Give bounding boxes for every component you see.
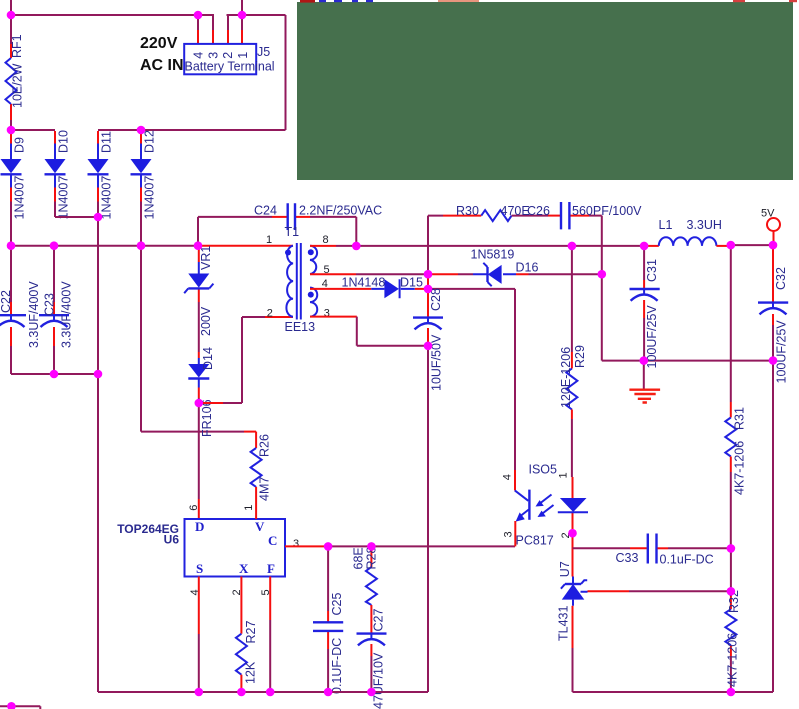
- wire J5 pin red stubs: [198, 30, 242, 44]
- wire U6 pin C line y=546.4: [285, 545, 328, 547]
- svg-text:3: 3: [293, 538, 299, 550]
- svg-text:1: 1: [558, 472, 570, 478]
- wire snubber right branch down x=601.8 to ground rail: [602, 216, 773, 361]
- svg-text:3.3UF/400V: 3.3UF/400V: [27, 281, 41, 348]
- wire AC line-2: vertical x=242, horizontal to x=285.5, down to y=130, left to D11: [98, 0, 286, 130]
- svg-text:200V: 200V: [199, 306, 213, 336]
- wire pins 4/5 tie x=428: [427, 274, 429, 289]
- svg-text:68E: 68E: [352, 547, 366, 569]
- ground symbol: [643, 361, 645, 389]
- svg-text:VR1: VR1: [199, 246, 213, 270]
- svg-text:X: X: [239, 561, 249, 576]
- snubber branch vertical x=428 up to y=215.6: [428, 216, 443, 275]
- svg-text:4: 4: [502, 474, 514, 480]
- svg-text:R31: R31: [733, 407, 747, 430]
- svg-text:D9: D9: [13, 137, 27, 153]
- diode D16 1N5819: [428, 273, 529, 275]
- svg-text:R27: R27: [244, 621, 258, 644]
- svg-text:1: 1: [243, 505, 255, 511]
- diode D12 1N4007: [140, 131, 142, 202]
- svg-text:J5: J5: [257, 45, 270, 59]
- wire R31 column from 5V node down: [730, 245, 732, 402]
- svg-text:S: S: [196, 561, 203, 576]
- svg-text:ISO5: ISO5: [529, 463, 558, 477]
- svg-text:L1: L1: [659, 218, 673, 232]
- svg-text:C31: C31: [645, 259, 659, 282]
- resistor R32 4K7-1206: [730, 591, 732, 609]
- wire drain net: junction down to U6 pin 6 (D): [198, 403, 200, 499]
- svg-text:3.3UF/400V: 3.3UF/400V: [60, 281, 74, 348]
- top strip remnants: [300, 0, 315, 3]
- svg-text:C27: C27: [372, 609, 386, 632]
- wire bottom-left fragment: [0, 706, 40, 709]
- svg-text:560PF/100V: 560PF/100V: [572, 204, 642, 218]
- capacitor C28 10UF/50V: [427, 289, 429, 346]
- diode D10 1N4007: [54, 131, 56, 202]
- svg-text:0.1UF-DC: 0.1UF-DC: [330, 638, 344, 694]
- connector J5 Battery Terminal: [184, 44, 256, 74]
- svg-text:1N4007: 1N4007: [13, 176, 27, 220]
- svg-text:1N4007: 1N4007: [143, 176, 157, 220]
- svg-text:1N4007: 1N4007: [100, 176, 114, 220]
- svg-text:4K7-1206: 4K7-1206: [733, 441, 747, 495]
- svg-text:3.3UH: 3.3UH: [687, 218, 722, 232]
- capacitor C31 100UF/25V: [643, 246, 645, 280]
- svg-text:R30: R30: [456, 204, 479, 218]
- svg-text:PC817: PC817: [516, 534, 554, 548]
- capacitor C24 2.2NF/250VAC: [198, 217, 356, 246]
- svg-text:AC IN: AC IN: [140, 57, 184, 74]
- wire junction to optocoupler collector: [428, 289, 515, 470]
- svg-text:C25: C25: [330, 593, 344, 616]
- svg-text:D: D: [195, 519, 204, 534]
- resistor R26 4M7: [255, 432, 257, 448]
- svg-text:V: V: [255, 519, 265, 534]
- svg-text:C23: C23: [43, 293, 57, 316]
- svg-text:U6: U6: [164, 533, 180, 547]
- svg-text:2: 2: [267, 308, 273, 320]
- terminal 5V output: [767, 218, 780, 231]
- svg-text:F: F: [267, 561, 275, 576]
- svg-text:C33: C33: [616, 551, 639, 565]
- green mask rectangle: [297, 2, 793, 180]
- svg-text:12K: 12K: [244, 661, 258, 684]
- LED of ISO5: [572, 477, 574, 533]
- svg-text:0.1uF-DC: 0.1uF-DC: [660, 553, 714, 567]
- capacitor C23 3.3UF/400V: [53, 246, 55, 374]
- svg-text:6: 6: [188, 505, 200, 511]
- wire T1 pin 3 line to C28 bottom: [310, 316, 357, 318]
- capacitor C26 560PF/100V: [561, 202, 569, 229]
- diode D14 FR106: [198, 352, 200, 398]
- svg-text:100UF/25V: 100UF/25V: [775, 320, 789, 384]
- wire minus bus: D11 junction down to C22/C23 bottom rail and to bottom rail: [97, 217, 99, 692]
- electrolytic cap lead stubs: [11, 289, 773, 640]
- svg-text:C22: C22: [0, 290, 13, 313]
- wire U6 pin S to bottom rail: [198, 577, 200, 635]
- svg-text:C26: C26: [527, 204, 550, 218]
- svg-text:10UF/50V: 10UF/50V: [430, 334, 444, 391]
- wire C22/C23 bottom rail y=374: [11, 373, 98, 375]
- wire T1 pin 8 output line y=245.9: [310, 245, 336, 247]
- capacitor C33 0.1uF-DC: [573, 547, 631, 549]
- svg-text:1N4007: 1N4007: [57, 176, 71, 220]
- svg-text:R26: R26: [258, 434, 272, 457]
- svg-text:470E: 470E: [501, 204, 530, 218]
- resistor R28 68E: [370, 546, 372, 567]
- svg-text:Battery Terminal: Battery Terminal: [185, 60, 275, 74]
- wire TL431 ref line y=590.8: [588, 590, 630, 592]
- capacitor C27 47UF/10V: [370, 605, 372, 656]
- svg-text:47UF/10V: 47UF/10V: [372, 652, 386, 709]
- svg-text:3: 3: [503, 531, 515, 537]
- svg-text:2: 2: [221, 52, 235, 59]
- diode D9 1N4007: [10, 131, 12, 202]
- svg-text:5V: 5V: [761, 208, 775, 220]
- wire R31/R32 mid segment: [730, 548, 732, 591]
- svg-text:8: 8: [323, 234, 329, 246]
- resistor RF1 10E/2W: [10, 15, 12, 131]
- wire T1 pin 5 line y=274.2: [310, 273, 356, 275]
- wire R29 column from output node down to LED: [571, 246, 573, 352]
- svg-text:D14: D14: [201, 347, 215, 370]
- svg-text:D15: D15: [400, 276, 423, 290]
- svg-text:D10: D10: [57, 130, 71, 153]
- svg-text:2.2NF/250VAC: 2.2NF/250VAC: [299, 204, 382, 218]
- svg-text:4K7-1206: 4K7-1206: [726, 633, 740, 687]
- wire +DC rail y=245.7: [11, 245, 199, 247]
- wire AC line-1 top: vertical at x=11 and horizontal y=15 to J5 pins 4,3: [11, 0, 214, 30]
- svg-text:1N5819: 1N5819: [471, 248, 515, 262]
- svg-text:D16: D16: [516, 261, 539, 275]
- svg-text:TL431: TL431: [557, 606, 571, 641]
- diode D15 1N4148: [310, 288, 428, 290]
- wire D10-D11 bottoms y=217: [55, 216, 98, 218]
- IC U6 TOP264EG box: [185, 519, 286, 577]
- wire bridge top-left segment y=130: [11, 129, 55, 131]
- svg-text:4: 4: [192, 52, 206, 59]
- resistor R30 470E: [443, 215, 481, 217]
- resistor R31 4K7-1206: [725, 418, 736, 457]
- capacitor C22 3.3UF/400V: [10, 246, 12, 374]
- svg-text:10E/2W: 10E/2W: [11, 63, 25, 108]
- svg-text:RF1: RF1: [10, 34, 24, 58]
- svg-text:C24: C24: [254, 204, 277, 218]
- zener VR1 200V: [198, 246, 200, 302]
- svg-text:U7: U7: [558, 561, 572, 577]
- svg-text:3: 3: [206, 52, 220, 59]
- wire LED cathode down through C33 tap to TL431: [572, 533, 574, 576]
- svg-text:1: 1: [236, 52, 250, 59]
- wire primary bottom rail y=692: [98, 691, 428, 693]
- svg-text:D12: D12: [143, 130, 157, 153]
- svg-text:C: C: [268, 533, 277, 548]
- svg-text:EE13: EE13: [285, 320, 316, 334]
- svg-text:T1: T1: [285, 225, 300, 239]
- svg-text:C32: C32: [774, 267, 788, 290]
- wire U6 pin F to bottom rail: [269, 577, 271, 621]
- svg-text:220V: 220V: [140, 35, 178, 52]
- wire D14 junction to T1 pin 2: [199, 402, 223, 404]
- svg-text:1N4148: 1N4148: [342, 276, 386, 290]
- wire D12 column down and feed to R26 y=431.6: [141, 246, 244, 432]
- svg-text:D11: D11: [100, 131, 114, 153]
- svg-text:3: 3: [324, 308, 330, 320]
- svg-text:R29: R29: [573, 345, 587, 368]
- svg-text:120E-1206: 120E-1206: [559, 347, 573, 408]
- diode D11 1N4007: [97, 131, 99, 202]
- resistor R27 12K: [240, 577, 242, 634]
- capacitor C25 0.1UF-DC: [327, 546, 329, 611]
- inductor L1 3.3UH: [644, 245, 659, 247]
- wire 5V node: [731, 244, 773, 246]
- svg-text:4M7: 4M7: [258, 477, 272, 501]
- svg-text:1: 1: [266, 234, 272, 246]
- capacitor C32 100UF/25V: [772, 245, 774, 325]
- resistor R29 120E-1206: [566, 369, 577, 410]
